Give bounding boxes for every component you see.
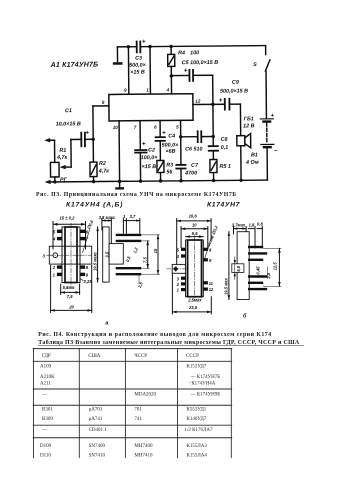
svg-text:4: 4 — [166, 87, 170, 92]
capacitor C3 — [137, 41, 141, 52]
svg-text:−К174УН4А: −К174УН4А — [189, 381, 216, 386]
svg-text:SN7400: SN7400 — [89, 444, 106, 449]
node pin7 bottom — [139, 179, 142, 182]
svg-text:11: 11 — [209, 281, 214, 286]
svg-text:0,5: 0,5 — [125, 255, 132, 263]
dim 7,5 side — [147, 241, 149, 268]
svg-text:10: 10 — [113, 125, 119, 130]
pin 5 wire — [180, 120, 182, 165]
svg-text:С1: С1 — [65, 108, 72, 114]
svg-text:В1: В1 — [251, 152, 258, 158]
pins b left — [181, 248, 186, 251]
table P3 text — [40, 354, 220, 458]
svg-text:В301: В301 — [42, 408, 53, 413]
pin 10 wire to ground — [118, 121, 121, 181]
svg-text:2: 2 — [52, 265, 56, 270]
svg-text:4,7к: 4,7к — [98, 168, 110, 174]
svg-text:3: 3 — [177, 276, 180, 281]
capacitor C8 — [209, 146, 218, 151]
svg-text:0,1: 0,1 — [221, 145, 229, 151]
node C5 branch — [170, 74, 173, 77]
svg-text:1/2 К176ЛА7: 1/2 К176ЛА7 — [185, 428, 213, 433]
svg-text:0,25: 0,25 — [84, 279, 93, 284]
node R5 bottom — [212, 179, 215, 182]
svg-text:12: 12 — [195, 99, 201, 104]
capacitor C1 — [81, 133, 85, 147]
svg-text:5,8: 5,8 — [236, 265, 241, 271]
node pin6 bottom — [159, 179, 162, 182]
svg-text:ЧССР: ЧССР — [134, 354, 147, 359]
svg-text:20: 20 — [68, 305, 74, 310]
svg-text:+: + — [271, 113, 275, 119]
table P3 grid — [33, 349, 232, 458]
svg-text:ГДР: ГДР — [42, 354, 51, 359]
svg-text:7,5: 7,5 — [67, 294, 73, 299]
wiper arrow R1 — [63, 166, 71, 168]
svg-text:— К174УН7Б: — К174УН7Б — [190, 375, 221, 380]
node C1/R2 — [92, 138, 95, 141]
dim 5,8 lug side — [232, 264, 244, 273]
svg-text:741: 741 — [134, 417, 142, 422]
svg-text:4700: 4700 — [184, 170, 197, 176]
svg-text:0,8: 0,8 — [257, 221, 263, 226]
wire input to R1 — [54, 140, 56, 162]
svg-text:MDA2020: MDA2020 — [134, 392, 156, 397]
svg-text:А109: А109 — [40, 364, 52, 369]
svg-text:К140УД7: К140УД7 — [187, 417, 207, 422]
svg-text:15 ± 0,2: 15 ± 0,2 — [60, 216, 76, 221]
svg-text:−: − — [274, 149, 278, 155]
capacitor C5 — [171, 74, 189, 76]
svg-text:1: 1 — [177, 288, 180, 293]
wire pin 9 — [127, 47, 129, 94]
wire pin 1 — [149, 47, 151, 94]
dim 12,5 — [278, 248, 280, 286]
svg-text:С4: С4 — [168, 133, 175, 139]
svg-text:CD401 1: CD401 1 — [89, 428, 108, 433]
svg-text:56: 56 — [166, 169, 173, 175]
svg-text:2: 2 — [176, 282, 180, 287]
svg-text:Рис. П4. Конструкция и располо: Рис. П4. Конструкция и расположение выво… — [38, 332, 271, 338]
svg-text:12: 12 — [209, 287, 214, 292]
node R4 top — [169, 45, 172, 48]
input arrow top — [47, 139, 54, 141]
svg-text:4,7к: 4,7к — [56, 155, 68, 161]
pin 7 wire — [139, 121, 141, 150]
node pin5/C6 — [179, 135, 182, 138]
svg-text:100: 100 — [190, 50, 199, 56]
wire speaker drop — [239, 104, 241, 136]
svg-text:А210К: А210К — [40, 375, 55, 380]
resistor R4 — [170, 46, 172, 54]
pin 8 wire — [93, 105, 109, 107]
svg-text:+: + — [142, 38, 146, 45]
svg-text:МН7400: МН7400 — [134, 444, 153, 449]
capacitor C9 — [225, 99, 230, 110]
svg-text:—: — — [41, 428, 48, 433]
package a flange — [49, 246, 91, 264]
bottom rail wire — [48, 180, 268, 182]
svg-text:+: + — [184, 67, 188, 74]
svg-text:R5 1: R5 1 — [219, 164, 230, 170]
svg-text:5,8мм: 5,8мм — [63, 285, 75, 290]
pins a side — [117, 234, 140, 236]
dim 7,5 — [61, 291, 80, 293]
package a side body — [109, 244, 123, 265]
svg-text:10: 10 — [192, 223, 197, 228]
svg-text:1: 1 — [53, 273, 56, 278]
svg-text:В309: В309 — [42, 417, 53, 422]
svg-text:×6В: ×6В — [166, 149, 176, 155]
dim 19,5 max b — [228, 232, 230, 300]
svg-text:100,0×: 100,0× — [141, 155, 159, 161]
capacitor C4 — [156, 137, 165, 141]
svg-text:С5 100,0×15 В: С5 100,0×15 В — [182, 60, 219, 66]
svg-text:А1 К174УН7Б: А1 К174УН7Б — [50, 62, 99, 69]
svg-text:500,0×15 В: 500,0×15 В — [220, 88, 248, 94]
svg-text:+: + — [142, 141, 146, 148]
battery GB1 — [260, 118, 273, 120]
op-amp U1 IC K174UN7B box — [109, 94, 193, 121]
pins b side — [249, 246, 262, 248]
svg-text:4: 4 — [176, 254, 180, 259]
pins a right — [80, 230, 85, 233]
capacitor C2 — [135, 150, 146, 153]
svg-text:С9: С9 — [232, 80, 239, 86]
svg-text:7,5: 7,5 — [143, 257, 148, 263]
svg-text:1,8: 1,8 — [249, 222, 255, 227]
node R2 bottom — [92, 180, 95, 183]
node pin5 bottom — [179, 179, 182, 182]
pin 12 wire — [193, 103, 225, 105]
svg-text:С2: С2 — [148, 147, 155, 153]
svg-text:R4: R4 — [178, 50, 185, 56]
svg-text:0,45: 0,45 — [255, 266, 260, 275]
ground pin10 — [119, 181, 121, 187]
svg-text:701: 701 — [134, 408, 142, 413]
svg-text:6: 6 — [154, 125, 157, 130]
svg-text:К155ЛА4: К155ЛА4 — [187, 453, 208, 458]
svg-text:5,5: 5,5 — [192, 231, 198, 236]
dim 19,5 макс — [97, 227, 99, 282]
svg-text:б: б — [243, 312, 247, 319]
svg-text:5: 5 — [53, 229, 56, 234]
svg-text:8: 8 — [209, 247, 212, 252]
pins b right — [203, 248, 208, 251]
node pin9 top — [127, 45, 130, 48]
svg-text:3,8 макс: 3,8 макс — [99, 215, 116, 220]
svg-text:С7: С7 — [191, 163, 199, 169]
ground top-left — [116, 47, 118, 62]
svg-text:К153УД7: К153УД7 — [187, 364, 207, 369]
svg-text:К553УД1: К553УД1 — [187, 408, 207, 413]
svg-text:500,0×: 500,0× — [129, 63, 147, 69]
resistor R3 — [157, 160, 164, 172]
dim 20 — [51, 309, 92, 311]
svg-text:С8: С8 — [221, 137, 228, 143]
svg-text:1: 1 — [146, 87, 149, 92]
switch S — [265, 46, 267, 55]
svg-text:—: — — [41, 392, 48, 397]
svg-text:μА741: μА741 — [89, 417, 103, 422]
svg-text:С3: С3 — [135, 56, 142, 62]
svg-text:×15 В: ×15 В — [142, 164, 157, 170]
svg-text:8: 8 — [102, 100, 105, 105]
pins a left — [57, 230, 62, 233]
node pin10 bottom — [118, 180, 121, 183]
svg-text:+: + — [219, 97, 223, 104]
svg-text:D110: D110 — [40, 453, 51, 458]
package b side plate — [237, 232, 249, 300]
svg-text:5: 5 — [176, 124, 179, 129]
package a side flange — [103, 227, 109, 282]
package b body — [186, 240, 204, 297]
svg-text:9: 9 — [86, 273, 89, 278]
svg-text:R2: R2 — [99, 161, 106, 167]
svg-text:3: 3 — [43, 253, 46, 258]
svg-text:SN7410: SN7410 — [89, 453, 106, 458]
svg-text:12 В: 12 В — [243, 123, 255, 129]
svg-text:— К174УН9Б: — К174УН9Б — [190, 392, 221, 397]
node C6/C8 — [211, 135, 214, 138]
svg-text:К174УН4 (А,Б): К174УН4 (А,Б) — [66, 202, 123, 209]
svg-text:К174УН7: К174УН7 — [207, 202, 241, 209]
svg-text:×15 В: ×15 В — [130, 70, 145, 76]
svg-text:16,6: 16,6 — [189, 213, 198, 218]
package a body — [62, 227, 80, 283]
svg-text:15: 15 — [153, 248, 158, 253]
svg-text:μА701: μА701 — [89, 408, 103, 413]
capacitor C7 — [176, 165, 185, 169]
wire pin 4 — [170, 76, 172, 94]
svg-text:США: США — [88, 354, 100, 359]
svg-text:СССР: СССР — [186, 354, 199, 359]
svg-text:5: 5 — [177, 247, 180, 252]
svg-text:10,0×15 В: 10,0×15 В — [56, 121, 81, 127]
svg-text:ГБ1: ГБ1 — [244, 116, 254, 122]
svg-text:+: + — [162, 130, 166, 137]
pin 6 wire — [159, 120, 161, 137]
svg-text:7: 7 — [134, 125, 137, 130]
wire R2 riser to pin8 — [92, 106, 94, 162]
svg-text:2,5: 2,5 — [266, 272, 271, 279]
svg-text:а: а — [105, 320, 108, 326]
wire zobel rail — [212, 75, 215, 146]
package b lug — [172, 264, 185, 273]
svg-text:∅0,6: ∅0,6 — [86, 219, 95, 230]
svg-text:9: 9 — [209, 258, 212, 263]
svg-text:D100: D100 — [40, 444, 52, 449]
svg-text:9: 9 — [124, 88, 127, 93]
node rail x213 on pin12 — [211, 103, 214, 106]
svg-text:500,0×: 500,0× — [162, 142, 180, 148]
svg-text:3,5: 3,5 — [104, 251, 109, 257]
dim 15 side — [157, 235, 159, 274]
svg-text:1,2: 1,2 — [132, 246, 139, 254]
svg-text:С6 510: С6 510 — [185, 146, 202, 152]
svg-text:+: + — [85, 129, 89, 136]
potentiometer R1 — [50, 162, 59, 177]
capacitor C6 — [181, 136, 198, 138]
svg-text:3,7: 3,7 — [130, 214, 136, 219]
svg-text:4: 4 — [52, 237, 56, 242]
node R1 bottom — [53, 180, 56, 183]
resistor R5 — [210, 160, 217, 173]
svg-text:Рис. ПЗ. Принципиальная схема: Рис. ПЗ. Принципиальная схема УНЧ на мик… — [36, 192, 237, 198]
node pin1 top — [148, 45, 151, 48]
svg-text:2,5мах: 2,5мах — [187, 297, 202, 302]
mounting hole — [53, 253, 58, 258]
svg-text:R3: R3 — [166, 162, 173, 168]
svg-text:23,5: 23,5 — [188, 305, 198, 310]
wire top supply rail — [117, 46, 136, 48]
svg-text:12,5: 12,5 — [272, 262, 277, 271]
svg-text:19,5 мах: 19,5 мах — [224, 277, 229, 295]
svg-text:К155ЛА3: К155ЛА3 — [187, 444, 208, 449]
svg-text:4 Ом: 4 Ом — [245, 160, 259, 166]
svg-text:8: 8 — [86, 265, 89, 270]
svg-text:МН7410: МН7410 — [134, 453, 153, 458]
svg-text:R1: R1 — [59, 148, 66, 154]
svg-text:А211: А211 — [40, 381, 51, 386]
loudspeaker B1 — [237, 136, 245, 146]
svg-text:19,5 макс: 19,5 макс — [92, 251, 97, 271]
resistor R2 — [90, 162, 97, 177]
svg-text:S: S — [253, 62, 257, 68]
svg-text:2,5: 2,5 — [137, 281, 144, 290]
